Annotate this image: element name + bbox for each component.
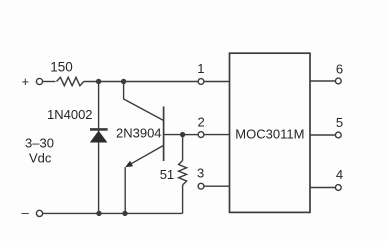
transistor Q1 base bar	[163, 107, 165, 162]
optocoupler U1 MOC3011M	[230, 53, 311, 212]
pin 1	[197, 61, 229, 84]
svg-text:3–30: 3–30	[25, 136, 54, 151]
transistor Q1 emitter lead with arrow	[125, 145, 163, 167]
resistor 51	[160, 135, 187, 214]
svg-text:Vdc: Vdc	[29, 151, 52, 166]
wire + terminal to resistor 150	[43, 81, 56, 83]
pin 6	[310, 61, 343, 84]
svg-text:1N4002: 1N4002	[47, 107, 93, 122]
pin 3	[197, 165, 230, 189]
transistor Q1 base lead	[164, 134, 183, 136]
svg-text:2: 2	[198, 115, 205, 130]
label 3-30 Vdc	[25, 136, 54, 166]
svg-text:5: 5	[336, 115, 343, 130]
wire resistor to pin 1	[84, 81, 198, 83]
wire base node to pin 2	[183, 134, 199, 136]
node: bottom rail / diode junction	[96, 211, 101, 216]
transistor Q1 2N3904 collector lead	[124, 82, 164, 121]
node: top rail / collector junction	[121, 79, 126, 84]
wire bottom rail	[43, 212, 183, 214]
svg-text:2N3904: 2N3904	[116, 126, 162, 141]
svg-text:+: +	[22, 74, 30, 89]
- terminal	[22, 205, 43, 220]
svg-text:–: –	[22, 205, 30, 220]
svg-text:3: 3	[197, 165, 204, 180]
svg-text:6: 6	[336, 61, 343, 76]
node: base / resistor 51 junction	[180, 132, 185, 137]
svg-text:150: 150	[50, 59, 73, 74]
pin 4	[310, 167, 343, 191]
svg-text:51: 51	[160, 167, 174, 182]
node: bottom rail / emitter junction	[122, 211, 127, 216]
svg-text:1: 1	[197, 61, 204, 76]
node: top rail / diode junction	[96, 79, 101, 84]
diode 1N4002	[47, 107, 108, 143]
pin 5	[310, 115, 343, 138]
resistor 150	[50, 59, 84, 85]
svg-text:MOC3011M: MOC3011M	[235, 127, 304, 142]
wire diode branch	[98, 82, 100, 214]
wire emitter to bottom rail	[124, 167, 126, 213]
svg-text:4: 4	[336, 167, 343, 182]
pin 2	[198, 115, 230, 138]
+ terminal	[22, 74, 43, 89]
